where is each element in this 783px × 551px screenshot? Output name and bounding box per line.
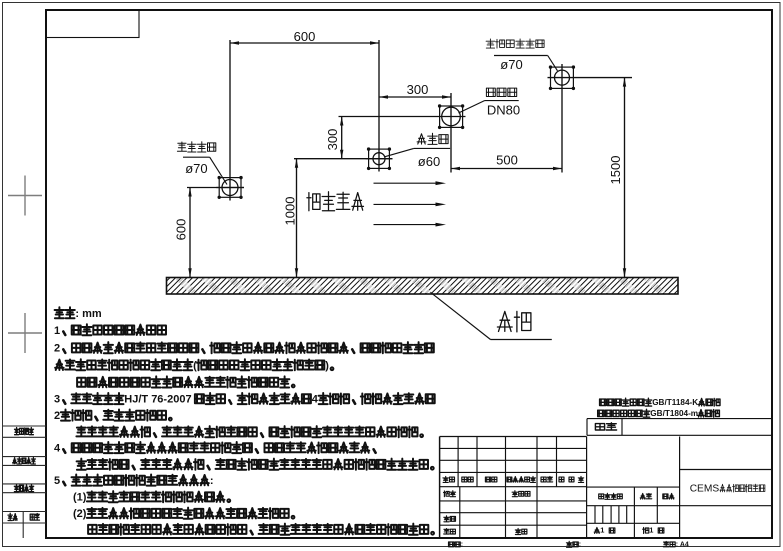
svg-text:2: 2 bbox=[54, 410, 60, 422]
svg-text:ø70: ø70 bbox=[500, 57, 522, 72]
svg-text:1: 1 bbox=[649, 526, 653, 535]
svg-text:1000: 1000 bbox=[283, 197, 298, 226]
svg-text:ø70: ø70 bbox=[185, 161, 207, 176]
svg-text::: : bbox=[210, 475, 214, 487]
svg-text:GB/T1184-K: GB/T1184-K bbox=[652, 398, 698, 407]
svg-text:(2): (2) bbox=[73, 508, 87, 520]
svg-text:4: 4 bbox=[54, 443, 61, 455]
svg-text:600: 600 bbox=[294, 29, 316, 44]
svg-text:500: 500 bbox=[496, 152, 518, 167]
svg-text:(1): (1) bbox=[73, 492, 87, 504]
svg-text:HJ/T 76-2007: HJ/T 76-2007 bbox=[124, 394, 191, 406]
svg-text:600: 600 bbox=[174, 219, 189, 241]
svg-text:: mm: : mm bbox=[75, 308, 102, 320]
svg-text::: : bbox=[461, 541, 463, 548]
svg-text:5: 5 bbox=[54, 475, 60, 487]
svg-text:): ) bbox=[325, 360, 329, 372]
svg-text:300: 300 bbox=[407, 82, 429, 97]
svg-text:: A4: : A4 bbox=[676, 541, 689, 548]
svg-text:1: 1 bbox=[54, 325, 60, 337]
svg-text:1: 1 bbox=[600, 526, 604, 535]
svg-text:1500: 1500 bbox=[608, 156, 623, 185]
svg-text:3: 3 bbox=[54, 394, 60, 406]
svg-text:DN80: DN80 bbox=[487, 103, 520, 118]
svg-text:300: 300 bbox=[325, 129, 340, 151]
svg-text:2: 2 bbox=[54, 343, 60, 355]
svg-text:CEMS: CEMS bbox=[690, 484, 720, 495]
svg-text:ø60: ø60 bbox=[418, 154, 440, 169]
svg-text:GB/T1804-m: GB/T1804-m bbox=[650, 409, 698, 418]
svg-text:(: ( bbox=[193, 360, 197, 372]
svg-text::: : bbox=[579, 541, 581, 548]
